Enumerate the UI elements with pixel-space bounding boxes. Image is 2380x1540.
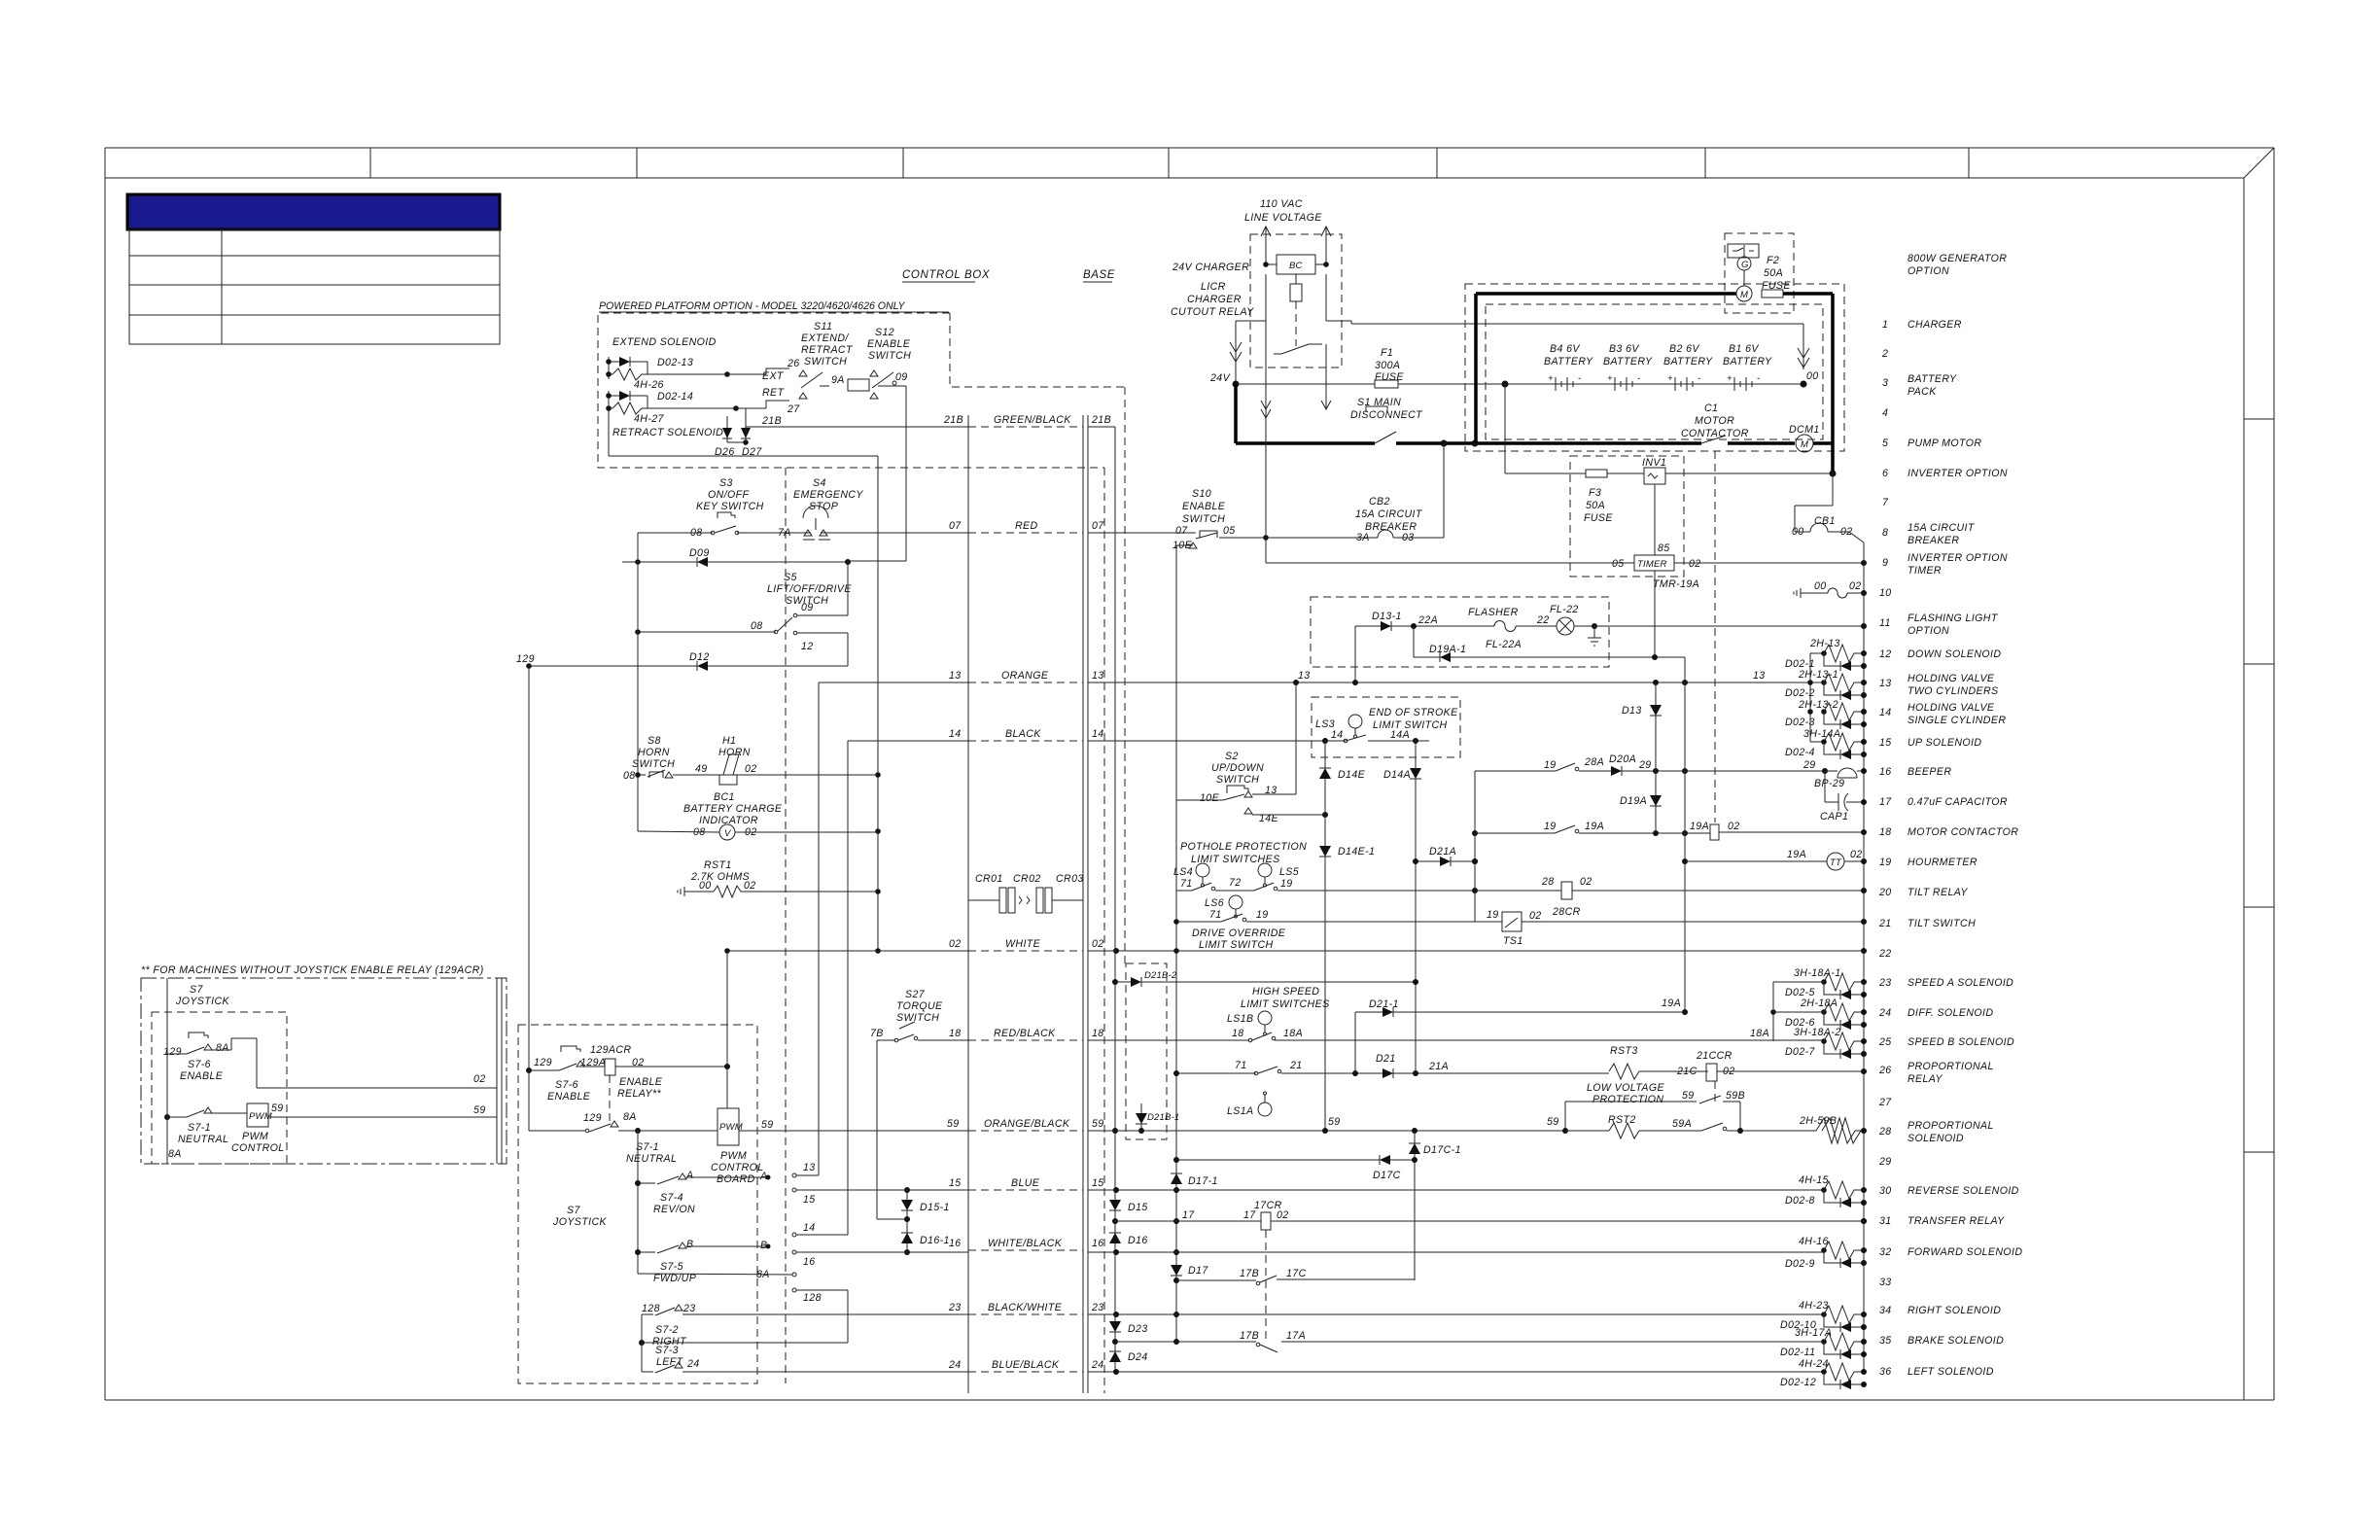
svg-text:20: 20 xyxy=(1878,887,1892,898)
svg-text:27: 27 xyxy=(1878,1097,1892,1108)
svg-text:4: 4 xyxy=(1882,407,1888,419)
svg-text:G: G xyxy=(1741,260,1749,270)
wire S10 out 05 xyxy=(1219,537,1266,539)
wire collector vertical 1517 xyxy=(1474,771,1476,922)
svg-text:BC1: BC1 xyxy=(714,791,735,803)
diode D15-1 xyxy=(906,1190,908,1252)
svg-text:D02-4: D02-4 xyxy=(1785,747,1815,758)
svg-text:CONTROL: CONTROL xyxy=(711,1162,764,1173)
wire 15 blue row base / row 30 xyxy=(1088,1189,1824,1191)
svg-text:HOLDING VALVE: HOLDING VALVE xyxy=(1907,702,1995,714)
svg-text:JOYSTICK: JOYSTICK xyxy=(552,1216,608,1228)
svg-text:EMERGENCY: EMERGENCY xyxy=(793,489,863,501)
svg-text:19: 19 xyxy=(1280,878,1293,890)
wire platform bottom return xyxy=(608,413,610,456)
svg-text:00: 00 xyxy=(1806,370,1819,382)
svg-text:POWERED PLATFORM OPTION - MODE: POWERED PLATFORM OPTION - MODEL 3220/462… xyxy=(599,300,906,312)
svg-text:BATTERY CHARGE: BATTERY CHARGE xyxy=(683,803,783,815)
wire 59 orange/black row base xyxy=(1088,1130,1565,1132)
svg-text:28: 28 xyxy=(1878,1126,1892,1137)
wire charger left drop 24V xyxy=(1235,321,1237,384)
svg-text:02: 02 xyxy=(1277,1209,1289,1221)
svg-text:13: 13 xyxy=(1092,670,1104,682)
svg-text:23: 23 xyxy=(682,1303,696,1314)
svg-text:TS1: TS1 xyxy=(1503,935,1523,947)
svg-text:16: 16 xyxy=(803,1256,816,1268)
svg-text:PROPORTIONAL: PROPORTIONAL xyxy=(1907,1061,1994,1072)
svg-text:LS1A: LS1A xyxy=(1227,1105,1254,1117)
svg-text:02: 02 xyxy=(1689,558,1701,570)
svg-text:TT: TT xyxy=(1830,857,1842,868)
generator breaker sym xyxy=(1728,244,1759,258)
solenoid 4H-27 xyxy=(612,402,647,414)
wire S2 14E out xyxy=(1252,814,1325,816)
svg-text:2: 2 xyxy=(1881,348,1888,360)
svg-text:D16-1: D16-1 xyxy=(920,1235,950,1246)
svg-text:OPTION: OPTION xyxy=(1907,265,1949,277)
right strip divider 2 xyxy=(2244,663,2274,665)
diode D17C xyxy=(1176,1159,1380,1161)
svg-text:ENABLE: ENABLE xyxy=(867,338,911,350)
svg-text:23: 23 xyxy=(1091,1302,1104,1313)
svg-text:31: 31 xyxy=(1879,1215,1892,1227)
svg-text:72: 72 xyxy=(1229,877,1242,889)
diode D23 xyxy=(1109,1321,1121,1332)
wire left box vertical xyxy=(166,978,168,1164)
svg-text:TWO CYLINDERS: TWO CYLINDERS xyxy=(1907,685,1999,697)
svg-text:129: 129 xyxy=(163,1046,182,1058)
svg-text:02: 02 xyxy=(1849,580,1862,592)
svg-text:FORWARD SOLENOID: FORWARD SOLENOID xyxy=(1907,1246,2022,1258)
svg-text:LIMIT SWITCHES: LIMIT SWITCHES xyxy=(1241,998,1330,1010)
svg-text:S27: S27 xyxy=(905,989,926,1000)
wire S1 to contactor thick xyxy=(1396,441,1701,445)
svg-text:05: 05 xyxy=(1612,558,1625,570)
svg-text:02: 02 xyxy=(1850,849,1863,860)
svg-text:15: 15 xyxy=(1092,1177,1104,1189)
svg-text:RST2: RST2 xyxy=(1608,1114,1636,1126)
svg-text:INV1: INV1 xyxy=(1642,457,1666,469)
svg-text:CR02: CR02 xyxy=(1013,873,1041,885)
diode D26 xyxy=(722,428,732,438)
switch S7-6 enable left xyxy=(189,1032,208,1038)
svg-text:71: 71 xyxy=(1180,878,1193,890)
svg-text:19: 19 xyxy=(1256,909,1269,921)
svg-text:3: 3 xyxy=(1882,377,1888,389)
svg-text:BC: BC xyxy=(1289,261,1303,271)
svg-text:S7-6: S7-6 xyxy=(555,1079,578,1091)
svg-text:B2 6V: B2 6V xyxy=(1669,343,1699,355)
svg-text:128: 128 xyxy=(803,1292,822,1304)
svg-text:3H-18A-1: 3H-18A-1 xyxy=(1794,967,1841,979)
svg-text:02: 02 xyxy=(949,938,962,950)
wire BC top connections xyxy=(1266,263,1277,265)
svg-text:07: 07 xyxy=(1092,520,1104,532)
link dashed boundary 1764 xyxy=(1714,451,1716,822)
svg-text:FLASHING LIGHT: FLASHING LIGHT xyxy=(1907,612,1999,624)
svg-text:21CCR: 21CCR xyxy=(1696,1050,1732,1062)
svg-text:8A: 8A xyxy=(623,1111,637,1123)
svg-text:+: + xyxy=(1667,373,1673,384)
svg-text:RST1: RST1 xyxy=(704,859,732,871)
svg-text:16: 16 xyxy=(1092,1238,1104,1249)
diode D14A xyxy=(1415,741,1417,1073)
svg-text:2H-13-2: 2H-13-2 xyxy=(1798,699,1838,711)
svg-text:FUSE: FUSE xyxy=(1584,512,1613,524)
svg-text:HORN: HORN xyxy=(718,747,751,758)
wire S7 common vertical xyxy=(637,1131,639,1274)
wire 23 black/white row base / row 34 xyxy=(1088,1313,1824,1315)
svg-text:RETRACT: RETRACT xyxy=(801,344,854,356)
svg-text:71: 71 xyxy=(1209,909,1222,921)
svg-text:D02-11: D02-11 xyxy=(1780,1347,1815,1358)
svg-text:59: 59 xyxy=(947,1118,960,1130)
bus right 02 vertical xyxy=(1863,542,1865,1371)
svg-text:ENABLE: ENABLE xyxy=(1182,501,1226,512)
svg-text:24V: 24V xyxy=(1209,372,1231,384)
svg-text:RET: RET xyxy=(762,387,786,399)
top strip divider 7 xyxy=(1968,148,1970,178)
relay LICR coil xyxy=(1290,284,1302,301)
svg-text:7A: 7A xyxy=(778,527,791,539)
board PWM control right xyxy=(717,1108,739,1145)
switch LICR contact xyxy=(1281,344,1309,354)
svg-text:JOYSTICK: JOYSTICK xyxy=(175,996,230,1007)
svg-text:23: 23 xyxy=(948,1302,962,1313)
svg-text:D19A-1: D19A-1 xyxy=(1429,644,1466,655)
svg-text:128: 128 xyxy=(642,1303,660,1314)
svg-text:15: 15 xyxy=(949,1177,962,1189)
svg-text:S7: S7 xyxy=(567,1205,580,1216)
svg-text:SINGLE CYLINDER: SINGLE CYLINDER xyxy=(1907,715,2006,726)
svg-text:D02-12: D02-12 xyxy=(1780,1377,1816,1388)
switch LS3 in end of stroke box xyxy=(1312,697,1460,757)
svg-text:SWITCH: SWITCH xyxy=(896,1012,939,1024)
wire S5 common xyxy=(638,631,776,633)
solenoid 4H-26 xyxy=(612,368,647,380)
svg-text:BASE: BASE xyxy=(1083,269,1115,281)
wire S2 10E in xyxy=(1176,799,1223,801)
svg-text:B1 6V: B1 6V xyxy=(1729,343,1759,355)
svg-text:+: + xyxy=(1548,373,1554,384)
svg-text:24: 24 xyxy=(1878,1007,1892,1019)
svg-text:ORANGE: ORANGE xyxy=(1001,670,1049,682)
wire CB1 connections xyxy=(1832,473,1834,506)
svg-text:HORN: HORN xyxy=(638,747,670,758)
wire timer out to bus xyxy=(1674,562,1864,564)
svg-text:INVERTER OPTION: INVERTER OPTION xyxy=(1907,468,2008,479)
svg-text:71: 71 xyxy=(1235,1060,1247,1071)
wire beeper row 16 xyxy=(1475,770,1556,772)
output 13 circle xyxy=(792,1173,796,1177)
svg-text:CR03: CR03 xyxy=(1056,873,1084,885)
svg-text:1: 1 xyxy=(1882,319,1888,331)
svg-text:15: 15 xyxy=(803,1194,816,1206)
svg-text:17C: 17C xyxy=(1286,1268,1307,1279)
relay LICR actuate dashed link xyxy=(1295,301,1297,346)
wire 24 blue/black row base / row 36 xyxy=(1088,1371,1824,1373)
wire vertical 903 xyxy=(877,456,879,951)
svg-text:02: 02 xyxy=(1529,910,1542,922)
svg-text:D16: D16 xyxy=(1128,1235,1148,1246)
svg-text:UP/DOWN: UP/DOWN xyxy=(1211,762,1264,774)
svg-text:02: 02 xyxy=(744,880,756,892)
svg-text:7B: 7B xyxy=(870,1028,884,1039)
svg-text:0.47uF CAPACITOR: 0.47uF CAPACITOR xyxy=(1907,796,2008,808)
top strip divider 3 xyxy=(902,148,904,178)
svg-text:26: 26 xyxy=(787,358,800,369)
diode D02-13 xyxy=(619,357,630,367)
svg-text:SWITCH: SWITCH xyxy=(1182,513,1225,525)
svg-text:29: 29 xyxy=(1878,1156,1892,1168)
svg-text:RED/BLACK: RED/BLACK xyxy=(994,1028,1056,1039)
ground RST1 xyxy=(683,887,685,896)
wire control vertical 656 xyxy=(637,533,639,831)
wire flashing light to bus xyxy=(1594,625,1864,627)
svg-text:B3 6V: B3 6V xyxy=(1609,343,1639,355)
MIDDLE xyxy=(724,427,1867,1375)
svg-text:BRAKE SOLENOID: BRAKE SOLENOID xyxy=(1907,1335,2004,1347)
svg-text:129: 129 xyxy=(583,1112,602,1124)
svg-text:59: 59 xyxy=(1682,1090,1695,1102)
svg-text:28: 28 xyxy=(1541,876,1555,888)
svg-text:17: 17 xyxy=(1182,1209,1195,1221)
svg-text:14: 14 xyxy=(1879,707,1892,718)
svg-text:59: 59 xyxy=(1328,1116,1341,1128)
svg-text:D14E-1: D14E-1 xyxy=(1338,846,1375,857)
svg-text:SPEED B SOLENOID: SPEED B SOLENOID xyxy=(1907,1036,2014,1048)
svg-text:STOP: STOP xyxy=(809,501,838,512)
svg-text:PUMP MOTOR: PUMP MOTOR xyxy=(1907,437,1981,449)
svg-text:S3: S3 xyxy=(719,477,733,489)
svg-text:22A: 22A xyxy=(1417,614,1438,626)
svg-text:CR01: CR01 xyxy=(975,873,1003,885)
svg-text:50A: 50A xyxy=(1764,267,1783,279)
svg-text:13: 13 xyxy=(803,1162,816,1173)
svg-text:S7-2: S7-2 xyxy=(655,1324,679,1336)
svg-text:CHARGER: CHARGER xyxy=(1907,319,1962,331)
flasher dashed box xyxy=(1311,597,1609,667)
svg-text:BOARD: BOARD xyxy=(717,1173,755,1185)
svg-text:M: M xyxy=(1801,439,1808,450)
svg-text:09: 09 xyxy=(801,602,814,613)
timer TIMER box xyxy=(1654,484,1656,555)
wire charger plug verticals xyxy=(1265,274,1267,538)
wire solenoid stack 1 vertical xyxy=(1809,653,1811,742)
svg-text:129: 129 xyxy=(534,1057,552,1068)
switch S7-6 enable right xyxy=(561,1046,580,1052)
svg-text:21B: 21B xyxy=(1091,414,1111,426)
svg-text:BLUE: BLUE xyxy=(1011,1177,1040,1189)
svg-text:D17C-1: D17C-1 xyxy=(1423,1144,1461,1156)
board PWM control left xyxy=(212,1112,247,1114)
diode D16 xyxy=(1109,1233,1121,1243)
link TMR-19A dashed vertical xyxy=(1654,571,1656,657)
svg-text:LEFT: LEFT xyxy=(656,1356,684,1368)
svg-text:S4: S4 xyxy=(813,477,826,489)
link 21CCR dashed xyxy=(1714,1081,1716,1102)
svg-text:BP-29: BP-29 xyxy=(1814,778,1844,789)
svg-text:59: 59 xyxy=(271,1102,284,1114)
wire 129 drop xyxy=(528,666,530,1070)
svg-text:14: 14 xyxy=(1092,728,1104,740)
diode D17-1 xyxy=(1171,1173,1182,1184)
output 128 circle xyxy=(792,1288,796,1292)
right strip divider 4 xyxy=(2244,1151,2274,1153)
table row line 1 xyxy=(129,255,500,257)
svg-text:PWM: PWM xyxy=(720,1150,747,1162)
svg-text:EXT: EXT xyxy=(762,370,785,382)
svg-text:LS6: LS6 xyxy=(1205,897,1224,909)
svg-text:D02-8: D02-8 xyxy=(1785,1195,1815,1207)
svg-text:19: 19 xyxy=(1487,909,1499,921)
svg-text:02: 02 xyxy=(473,1073,486,1085)
svg-text:49: 49 xyxy=(695,763,708,775)
svg-text:CUTOUT RELAY: CUTOUT RELAY xyxy=(1171,306,1254,318)
box S7 joystick left dashed xyxy=(152,1012,287,1164)
svg-text:WHITE/BLACK: WHITE/BLACK xyxy=(988,1238,1063,1249)
ground flasher xyxy=(1593,626,1595,638)
svg-text:FUSE: FUSE xyxy=(1375,371,1404,383)
svg-text:14: 14 xyxy=(803,1222,816,1234)
svg-text:3H-18A-2: 3H-18A-2 xyxy=(1794,1027,1841,1038)
right strip divider 3 xyxy=(2244,906,2274,908)
svg-text:SWITCH: SWITCH xyxy=(804,356,847,367)
box D21B dashed xyxy=(1126,963,1167,1139)
svg-text:8A: 8A xyxy=(216,1042,229,1054)
svg-text:INVERTER OPTION: INVERTER OPTION xyxy=(1907,552,2008,564)
svg-text:09: 09 xyxy=(895,371,908,383)
svg-text:BLACK: BLACK xyxy=(1005,728,1041,740)
svg-text:26: 26 xyxy=(1878,1065,1892,1076)
svg-text:CAP1: CAP1 xyxy=(1820,811,1848,822)
svg-text:ORANGE/BLACK: ORANGE/BLACK xyxy=(984,1118,1070,1130)
svg-text:TIMER: TIMER xyxy=(1637,559,1667,570)
output 14 circle xyxy=(792,1233,796,1237)
svg-text:OPTION: OPTION xyxy=(1907,625,1949,637)
svg-text:D17: D17 xyxy=(1188,1265,1208,1277)
wire CB2 circuit left xyxy=(1266,537,1378,539)
svg-text:110 VAC: 110 VAC xyxy=(1260,198,1303,210)
diode D21B-2 xyxy=(1115,981,1131,983)
svg-text:D02-13: D02-13 xyxy=(657,357,693,368)
base dashed boundary xyxy=(1124,387,1126,963)
table column divider xyxy=(221,229,223,344)
svg-text:PWM: PWM xyxy=(242,1131,268,1142)
svg-text:27: 27 xyxy=(787,403,800,415)
resistor squiggle row 10 xyxy=(1801,592,1828,594)
svg-text:CONTROL BOX: CONTROL BOX xyxy=(902,269,991,281)
svg-text:CB2: CB2 xyxy=(1369,496,1390,507)
diode D24 xyxy=(1109,1351,1121,1362)
svg-text:18: 18 xyxy=(949,1028,962,1039)
svg-text:** FOR MACHINES WITHOUT JOYSTI: ** FOR MACHINES WITHOUT JOYSTICK ENABLE … xyxy=(141,964,484,976)
svg-text:02: 02 xyxy=(1728,821,1740,832)
svg-text:15A CIRCUIT: 15A CIRCUIT xyxy=(1907,522,1976,534)
TOPAREA xyxy=(1171,198,1867,1371)
svg-text:00: 00 xyxy=(699,880,712,892)
svg-text:129: 129 xyxy=(516,653,535,665)
svg-text:CONTROL: CONTROL xyxy=(231,1142,285,1154)
svg-text:15: 15 xyxy=(1879,737,1892,749)
svg-text:D17-1: D17-1 xyxy=(1188,1175,1218,1187)
svg-text:07: 07 xyxy=(949,520,962,532)
svg-text:MOTOR CONTACTOR: MOTOR CONTACTOR xyxy=(1907,826,2018,838)
svg-text:LIFT/OFF/DRIVE: LIFT/OFF/DRIVE xyxy=(767,583,852,595)
svg-text:LICR: LICR xyxy=(1201,281,1226,293)
svg-text:59: 59 xyxy=(1092,1118,1104,1130)
wire 19A vertical xyxy=(1684,657,1686,1012)
svg-text:17: 17 xyxy=(1879,796,1892,808)
svg-text:59B: 59B xyxy=(1726,1090,1745,1102)
svg-text:LS5: LS5 xyxy=(1279,866,1299,878)
svg-text:D09: D09 xyxy=(689,547,710,559)
svg-text:13: 13 xyxy=(1753,670,1766,682)
svg-text:2H-13-1: 2H-13-1 xyxy=(1798,669,1838,681)
wire 18 red/black row base / row 25 xyxy=(1088,1039,1249,1041)
svg-text:S2: S2 xyxy=(1225,751,1239,762)
svg-text:DIFF. SOLENOID: DIFF. SOLENOID xyxy=(1907,1007,1993,1019)
svg-text:800W GENERATOR: 800W GENERATOR xyxy=(1907,253,2007,264)
wire 7B drop xyxy=(876,1040,878,1219)
wire 21B row to terminal xyxy=(746,426,968,428)
border outer top line xyxy=(105,147,2274,149)
border corner diagonal xyxy=(2244,148,2274,178)
svg-text:CHARGER: CHARGER xyxy=(1187,294,1242,305)
svg-text:17B: 17B xyxy=(1240,1330,1259,1342)
wire 09 down xyxy=(878,385,906,387)
svg-text:S7-6: S7-6 xyxy=(188,1059,211,1070)
svg-text:LEFT SOLENOID: LEFT SOLENOID xyxy=(1907,1366,1994,1378)
svg-text:50A: 50A xyxy=(1586,500,1605,511)
control box dashed boundary right xyxy=(1103,468,1105,1393)
svg-text:D21A: D21A xyxy=(1429,846,1456,857)
svg-text:21: 21 xyxy=(1878,918,1892,929)
svg-text:C1: C1 xyxy=(1704,402,1718,414)
svg-text:GREEN/BLACK: GREEN/BLACK xyxy=(994,414,1071,426)
battery pack inner dashed box xyxy=(1486,304,1823,439)
wire vertical 10E drop xyxy=(1175,545,1177,1342)
svg-text:D21: D21 xyxy=(1376,1053,1396,1065)
TERMINALS xyxy=(902,269,1115,1393)
svg-text:19A: 19A xyxy=(1690,821,1709,832)
svg-text:LIMIT SWITCH: LIMIT SWITCH xyxy=(1199,939,1274,951)
svg-text:SPEED A SOLENOID: SPEED A SOLENOID xyxy=(1907,977,2013,989)
svg-text:02: 02 xyxy=(1580,876,1592,888)
svg-text:HOURMETER: HOURMETER xyxy=(1907,857,1977,868)
svg-text:28A: 28A xyxy=(1584,756,1604,768)
svg-text:WHITE: WHITE xyxy=(1005,938,1041,950)
svg-text:21C: 21C xyxy=(1676,1066,1697,1077)
svg-text:DOWN SOLENOID: DOWN SOLENOID xyxy=(1907,648,2001,660)
diode D02-14 xyxy=(619,391,630,401)
svg-text:-: - xyxy=(1578,373,1581,384)
border left edge xyxy=(104,148,106,1400)
svg-text:21: 21 xyxy=(1289,1060,1303,1071)
svg-text:BATTERY: BATTERY xyxy=(1603,356,1653,367)
diode D19A xyxy=(1650,795,1662,806)
svg-text:17B: 17B xyxy=(1240,1268,1259,1279)
svg-text:19: 19 xyxy=(1879,857,1892,868)
svg-text:22: 22 xyxy=(1536,614,1550,626)
svg-text:14A: 14A xyxy=(1390,729,1410,741)
svg-text:24: 24 xyxy=(948,1359,962,1371)
border bottom edge xyxy=(105,1399,2274,1401)
wire S5 12 out xyxy=(797,632,848,634)
capacitor CAP1 row 17 xyxy=(1824,771,1826,802)
terminal strip base double xyxy=(1082,415,1084,1393)
svg-text:18A: 18A xyxy=(1750,1028,1769,1039)
